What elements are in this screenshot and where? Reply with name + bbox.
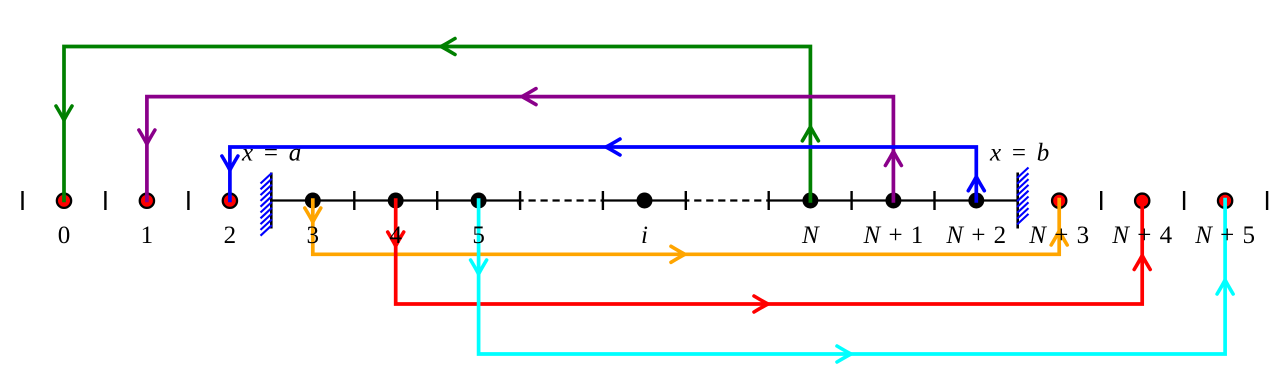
ghost node N+3 (1052, 194, 1066, 208)
blue path N+2 -> 2 (222, 139, 984, 203)
main axis solid segment left (271, 199, 520, 201)
green path N -> 0 (56, 39, 818, 203)
wall at x=b (1017, 168, 1028, 229)
svg-text:1: 1 (141, 222, 154, 249)
dashed segment 1 (520, 199, 603, 201)
ghost node N+4 (1135, 194, 1149, 208)
free-standing tick marks between ghost nodes (23, 191, 1268, 210)
main axis solid segment right (769, 199, 1018, 201)
svg-text:i: i (641, 222, 648, 249)
red path 4 -> N+4 (388, 198, 1150, 312)
interior node 5 (471, 193, 487, 209)
purple path N+1 -> 1 (139, 89, 902, 203)
dashed segment 2 (686, 199, 769, 201)
interior node i (637, 193, 653, 209)
svg-text:5: 5 (472, 222, 485, 249)
svg-text:N + 4: N + 4 (1111, 222, 1172, 249)
cyan path 5 -> N+5 (471, 198, 1234, 362)
solid segment around node i (603, 199, 686, 201)
svg-text:N: N (801, 222, 820, 249)
svg-text:3: 3 (307, 222, 320, 249)
interior node 3 (305, 193, 321, 209)
interior node N+2 (968, 193, 984, 209)
ghost node 2 (223, 194, 237, 208)
wall at x=a (261, 173, 272, 236)
svg-text:0: 0 (58, 222, 71, 249)
svg-text:N + 3: N + 3 (1028, 222, 1089, 249)
svg-text:x = b: x = b (989, 140, 1049, 167)
svg-text:N + 1: N + 1 (863, 222, 924, 249)
ghost node 1 (140, 194, 154, 208)
svg-text:2: 2 (224, 222, 237, 249)
orange path 3 -> N+3 (305, 198, 1067, 263)
svg-text:N + 2: N + 2 (945, 222, 1006, 249)
on-line tick marks (354, 191, 934, 210)
ghost node 0 (57, 194, 71, 208)
interior node N+1 (885, 193, 901, 209)
svg-text:N + 5: N + 5 (1194, 222, 1255, 249)
interior node N (802, 193, 818, 209)
svg-text:x = a: x = a (241, 140, 301, 167)
interior node 4 (388, 193, 404, 209)
svg-text:4: 4 (389, 222, 402, 249)
ghost node N+5 (1218, 194, 1232, 208)
